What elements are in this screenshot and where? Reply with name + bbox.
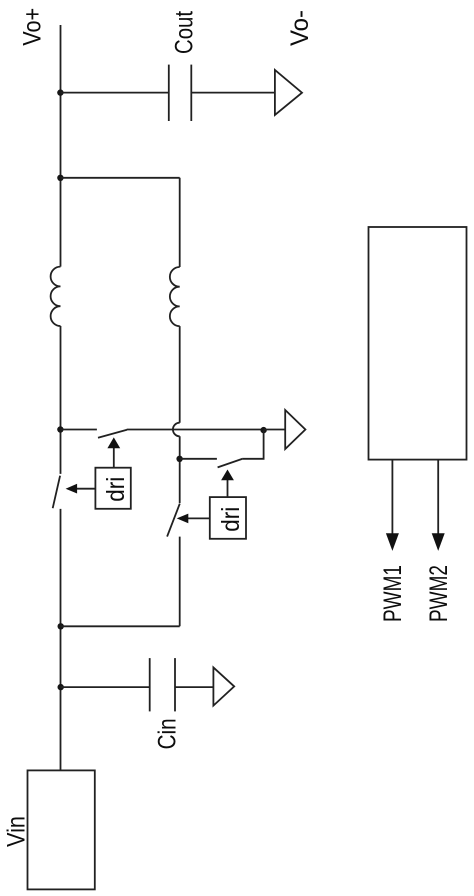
svg-text:Vo+: Vo+ <box>19 8 47 46</box>
wire phase 2 below inductor <box>179 326 181 423</box>
wire switch rail right <box>127 429 264 431</box>
terminal arrow input <box>213 667 234 705</box>
arrow U1 up <box>107 437 120 467</box>
label PWM1 <box>379 565 407 622</box>
wire phase 2 hop to branch dot <box>179 436 181 503</box>
label dri U2 <box>217 507 245 532</box>
capacitor Cin <box>150 658 175 711</box>
wire phase 1 lower <box>60 509 62 771</box>
inductor L1 <box>51 267 61 326</box>
terminal arrow Vo- <box>275 70 302 115</box>
arrow PWM1 <box>386 460 399 551</box>
arrow U2 up <box>221 470 234 498</box>
label Vo+ <box>19 8 47 46</box>
label PWM2 <box>425 565 453 622</box>
svg-text:Vin: Vin <box>3 816 31 847</box>
wire branch right and riser <box>243 430 264 459</box>
wire top rail to phase 2 <box>61 177 180 179</box>
switch S2 blade <box>218 459 243 468</box>
node dot phase junction <box>57 175 63 181</box>
node dot phase 1 switch rail <box>57 426 63 432</box>
source box Vin <box>28 770 95 889</box>
svg-text:dri: dri <box>102 477 130 502</box>
svg-text:Vo-: Vo- <box>286 10 314 46</box>
wire Cout to Vo- terminal <box>191 92 275 94</box>
node dot rectifier junction <box>260 427 266 433</box>
node dot output junction <box>57 89 63 95</box>
switch S4 blade phase 2 <box>167 504 180 537</box>
wire output rail to Cout <box>61 92 169 94</box>
label Vo- <box>286 10 314 46</box>
wire phase 2 drop <box>179 178 181 267</box>
wire branch left <box>180 458 217 460</box>
wire Cin to input terminal <box>175 686 213 688</box>
wire phase 2 lower <box>179 537 181 627</box>
svg-text:PWM2: PWM2 <box>425 565 453 622</box>
wire input rail to Cin <box>61 686 150 688</box>
arrow U2 left <box>177 514 210 524</box>
wire to mid terminal <box>264 429 286 431</box>
capacitor Cout <box>169 65 192 121</box>
label Vin <box>3 816 31 847</box>
inductor L2 <box>170 267 180 326</box>
label Cout <box>171 11 199 54</box>
node dot phase 2 branch <box>176 456 182 462</box>
controller box <box>369 227 467 460</box>
wire bottom rail phase 2 return <box>61 625 180 627</box>
terminal arrow mid <box>285 410 305 449</box>
label Cin <box>154 718 182 749</box>
svg-text:Cout: Cout <box>171 11 199 54</box>
wire hop over switch rail <box>173 423 180 437</box>
svg-text:Cin: Cin <box>154 718 182 749</box>
driver box U2 <box>210 497 246 539</box>
svg-text:dri: dri <box>217 507 245 532</box>
node dot input junction <box>58 684 64 690</box>
arrow U1 left <box>66 484 96 494</box>
switch S1 blade <box>98 430 127 438</box>
arrow PWM2 <box>432 460 445 551</box>
wire phase 1 below inductor <box>60 326 62 474</box>
wire Vo+ rail top segment <box>60 25 62 267</box>
label dri U1 <box>102 477 130 502</box>
wire switch rail left <box>61 429 97 431</box>
switch S3 blade phase 1 <box>53 476 60 509</box>
driver box U1 <box>95 468 130 509</box>
node dot bottom rail 1 <box>58 623 64 629</box>
svg-text:PWM1: PWM1 <box>379 565 407 622</box>
